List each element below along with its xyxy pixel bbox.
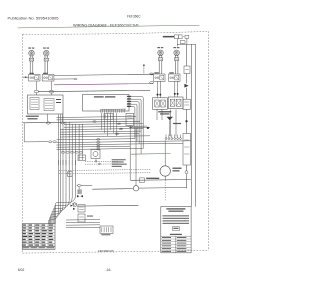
svg-text:6/02: 6/02 (18, 268, 25, 272)
svg-text:FEF366C: FEF366C (127, 15, 141, 19)
svg-text:FEF366C(P): FEF366C(P) (98, 249, 114, 253)
svg-text:-16-: -16- (106, 268, 112, 272)
svg-text:Publication No. 5995410905: Publication No. 5995410905 (8, 17, 59, 21)
